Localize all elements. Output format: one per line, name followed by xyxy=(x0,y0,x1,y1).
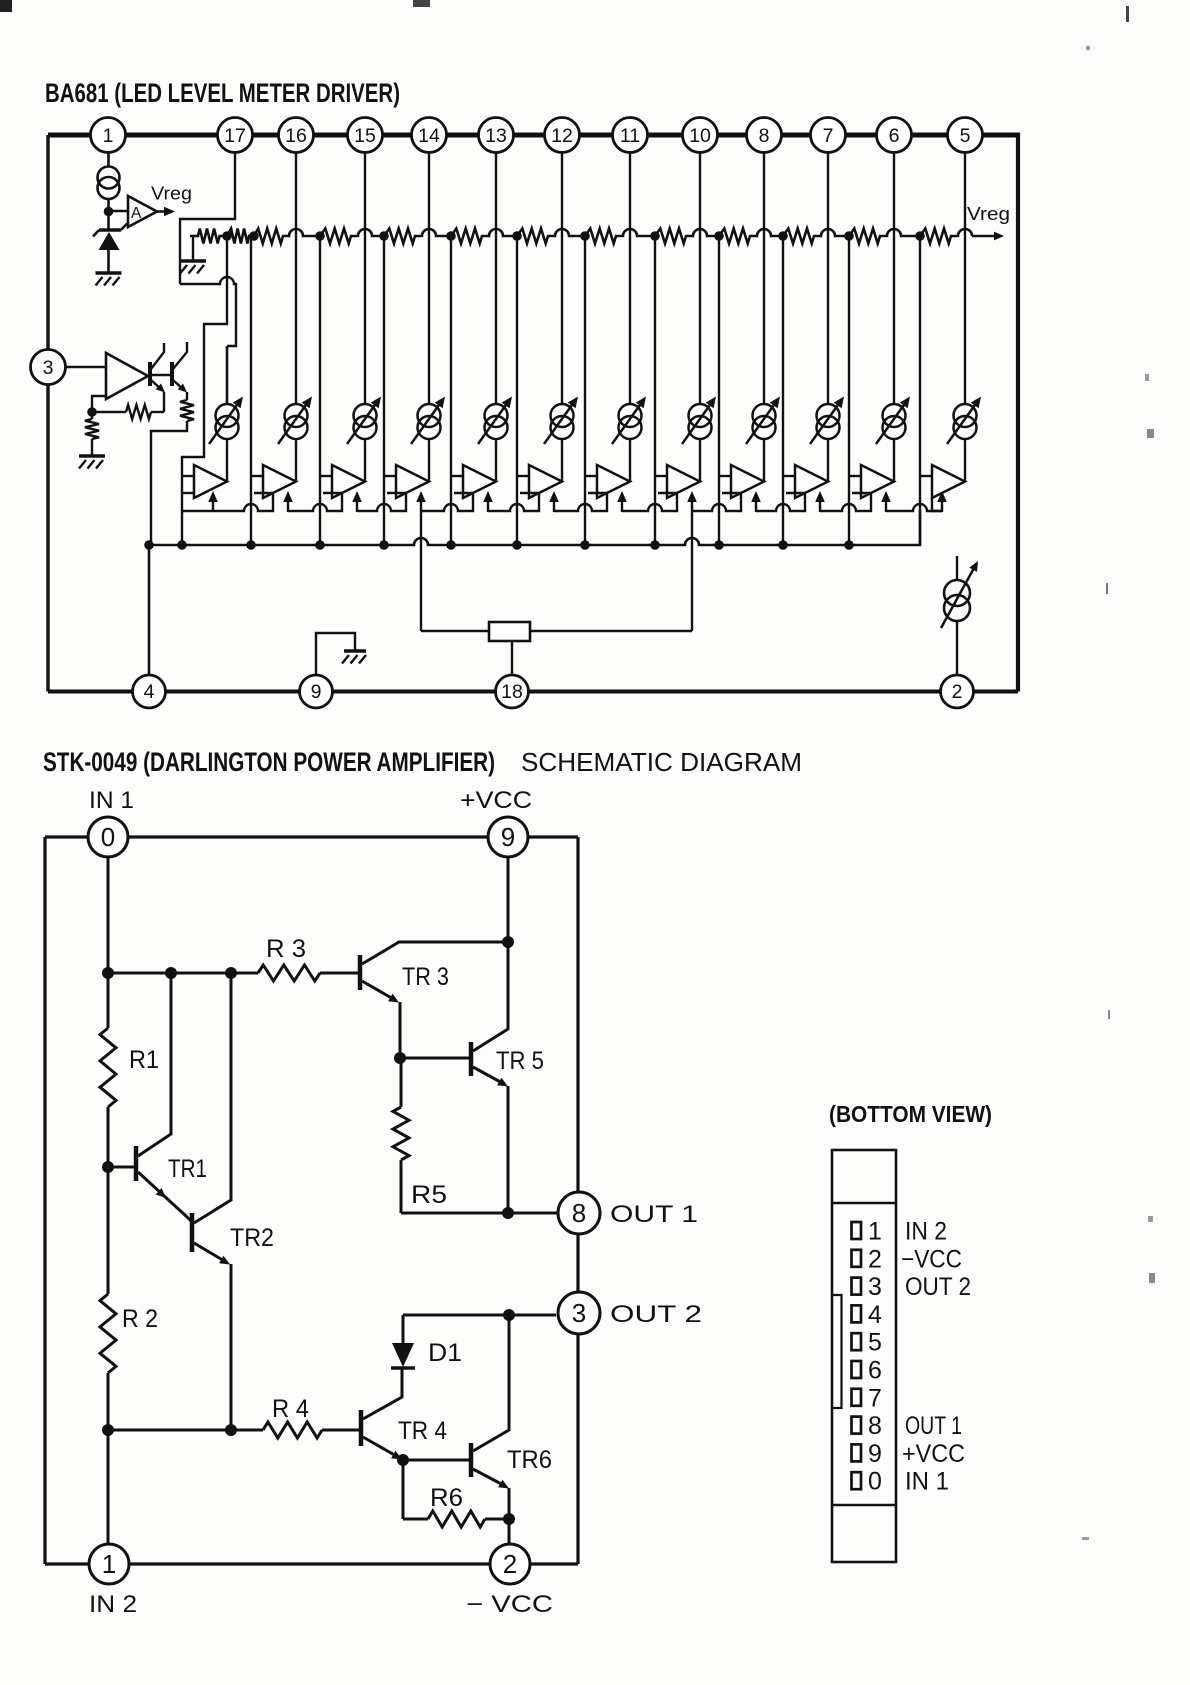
resistor R bias (vertical) xyxy=(91,412,93,419)
transistor TR2 xyxy=(190,1213,195,1252)
wire Q2 emitter to bus xyxy=(151,421,187,545)
pin 16 xyxy=(279,118,314,153)
op-amp comparator U2 xyxy=(263,465,296,498)
svg-text:A: A xyxy=(131,205,142,222)
wire reference input cell5 xyxy=(450,236,452,545)
wire STK box xyxy=(45,835,88,838)
LED D8 xyxy=(689,404,712,427)
pin 2 xyxy=(941,675,974,708)
LED D1 xyxy=(216,404,239,427)
svg-text:− VCC: − VCC xyxy=(466,1591,553,1618)
LED D5 xyxy=(485,404,508,427)
package tab notch xyxy=(832,1295,842,1408)
wire LED2 to comparator output xyxy=(295,439,297,482)
wire LED6 to comparator output xyxy=(561,439,563,482)
pin 7 xyxy=(811,118,846,153)
svg-text:+VCC: +VCC xyxy=(460,787,532,814)
node A junction xyxy=(104,207,114,217)
wire CS1 to node xyxy=(107,199,110,212)
wire pin column cell12 xyxy=(964,153,966,405)
pin 3 (bottom view) xyxy=(852,1278,862,1295)
pin 6 (bottom view) xyxy=(852,1361,862,1378)
wire reference input cell7 xyxy=(584,236,586,545)
wire pin column cell5 xyxy=(495,153,497,405)
wire pin column cell7 xyxy=(629,153,631,405)
svg-text:TR1: TR1 xyxy=(168,1155,207,1183)
scan artifact corner xyxy=(0,0,12,12)
wire reference input cell3 xyxy=(319,236,321,545)
wire LED1 to comparator output xyxy=(226,439,228,482)
svg-text:9: 9 xyxy=(868,1440,882,1468)
op-amp comparator U9 xyxy=(731,465,764,498)
pin 5 (bottom view) xyxy=(852,1333,862,1350)
current source CS2 (pin2) xyxy=(956,556,958,580)
wire pin1 to current source xyxy=(107,153,110,168)
svg-text:17: 17 xyxy=(224,125,246,147)
svg-text:2: 2 xyxy=(952,681,963,703)
transistor TR1 xyxy=(108,1166,134,1169)
ground (bias) xyxy=(79,456,105,469)
wire LED9 to comparator output xyxy=(763,439,765,482)
wire reference input cell9 xyxy=(718,236,720,545)
wire R-block left xyxy=(421,630,489,632)
svg-text:7: 7 xyxy=(823,125,834,147)
pin 9 xyxy=(300,675,333,708)
pin 2 (bottom view) xyxy=(852,1250,862,1267)
diode/amp input triangle xyxy=(106,353,148,399)
wire chain Vreg arrow xyxy=(972,235,996,238)
svg-text:OUT 2: OUT 2 xyxy=(905,1273,971,1301)
svg-text:D1: D1 xyxy=(428,1339,462,1367)
svg-text:9: 9 xyxy=(501,822,515,852)
svg-text:18: 18 xyxy=(501,681,523,703)
op-amp comparator U10 xyxy=(795,465,828,498)
wire LED12 to comparator output xyxy=(964,439,966,482)
svg-text:R 3: R 3 xyxy=(266,935,306,963)
resistor R emitter Q2 xyxy=(180,400,194,421)
wire pin3 to diode xyxy=(66,366,107,369)
wire reference input cell2 xyxy=(250,236,252,545)
wire strobe bus xyxy=(182,492,194,494)
wire LED7 to comparator output xyxy=(629,439,631,482)
pin 1 (bottom view) xyxy=(852,1222,862,1239)
svg-text:6: 6 xyxy=(889,125,900,147)
wire pin column cell4 xyxy=(428,153,430,405)
svg-text:TR 4: TR 4 xyxy=(398,1417,447,1445)
node chain taps xyxy=(222,231,232,241)
svg-text:3: 3 xyxy=(43,357,54,379)
svg-text:12: 12 xyxy=(551,125,573,147)
wire pin column cell10 xyxy=(827,153,829,405)
resistor R4 xyxy=(263,1422,322,1438)
wire input node row xyxy=(108,972,258,975)
pin 0 (bottom view) xyxy=(852,1472,862,1489)
LED D9 xyxy=(753,404,776,427)
LED D11 xyxy=(883,404,906,427)
resistor R3 xyxy=(258,965,320,981)
wire bottom node row xyxy=(108,1429,263,1432)
zener diode DZ xyxy=(107,212,110,230)
wire OUT1 row xyxy=(401,1212,558,1215)
pin 15 xyxy=(348,118,383,153)
LED D4 xyxy=(418,404,441,427)
pin 14 xyxy=(412,118,447,153)
wire right border xyxy=(1016,133,1020,692)
wire tap1 input spur xyxy=(182,475,194,477)
svg-text:TR6: TR6 xyxy=(507,1446,552,1474)
wire LED8 to comparator output xyxy=(699,439,701,482)
pin 12 xyxy=(545,118,580,153)
svg-text:2: 2 xyxy=(503,1549,517,1579)
svg-text:15: 15 xyxy=(354,125,376,147)
LED D3 xyxy=(354,404,377,427)
op-amp comparator U5 xyxy=(463,465,496,498)
pin 1 (IN2) xyxy=(89,1544,129,1584)
wire LED5 to comparator output xyxy=(495,439,497,482)
resistor block R14 xyxy=(489,622,530,641)
transistor TR3 xyxy=(358,955,363,990)
svg-text:4: 4 xyxy=(144,681,155,703)
wire OUT2 row xyxy=(403,1314,556,1317)
svg-text:16: 16 xyxy=(285,125,307,147)
wire pin column cell3 xyxy=(364,153,366,405)
svg-text:3: 3 xyxy=(868,1273,882,1301)
resistor chain (reference divider R1-R13) xyxy=(190,229,972,244)
wire left border xyxy=(46,135,49,350)
svg-text:IN 2: IN 2 xyxy=(89,1591,137,1618)
op-amp comparator U1 xyxy=(194,465,227,498)
op-amp comparator U12 xyxy=(932,465,965,498)
wire common bus xyxy=(147,511,920,545)
svg-text:Vreg: Vreg xyxy=(967,203,1010,224)
wire pin column cell8 xyxy=(699,153,701,405)
op-amp comparator U7 xyxy=(597,465,630,498)
svg-text:OUT 2: OUT 2 xyxy=(610,1301,702,1328)
resistor R2 xyxy=(107,1167,110,1294)
wire pin column cell2 xyxy=(295,153,297,405)
svg-text:8: 8 xyxy=(572,1198,586,1228)
package outline xyxy=(832,1150,896,1562)
wire reference input cell8 xyxy=(654,236,656,545)
wire bus to pin4 xyxy=(148,545,151,676)
wire Q1-Q2 base link xyxy=(152,374,170,376)
wire reference input cell11 xyxy=(848,236,850,545)
svg-text:5: 5 xyxy=(868,1329,882,1357)
pin 3 (OUT2) xyxy=(558,1292,600,1334)
pin 7 (bottom view) xyxy=(852,1389,862,1406)
svg-text:10: 10 xyxy=(689,125,711,147)
op-amp comparator U3 xyxy=(332,465,365,498)
svg-text:11: 11 xyxy=(620,125,640,147)
pin 13 xyxy=(479,118,514,153)
pin 9 (+VCC) xyxy=(488,817,528,857)
wire pin17 to LED1 (jogged) xyxy=(180,153,235,285)
wire bottom border xyxy=(48,690,133,694)
svg-text:9: 9 xyxy=(311,681,322,703)
pin 8 (bottom view) xyxy=(852,1417,862,1434)
LED D10 xyxy=(817,404,840,427)
svg-text:8: 8 xyxy=(759,125,770,147)
wire pin9 ground stub xyxy=(316,633,355,676)
wire R-block to pin18 xyxy=(511,641,513,676)
wire pin9 down xyxy=(507,856,510,1030)
wire reference input cell12 xyxy=(919,236,921,545)
op-amp comparator U4 xyxy=(396,465,429,498)
wire LED10 to comparator output xyxy=(827,439,829,482)
ground (zener) xyxy=(96,273,122,286)
svg-text:R 2: R 2 xyxy=(122,1305,158,1333)
op-amp comparator U11 xyxy=(861,465,894,498)
wire reference input cell4 xyxy=(383,236,385,545)
op-amp comparator U8 xyxy=(667,465,700,498)
wire strobe dropper to R-block (left) xyxy=(420,512,422,631)
svg-text:2: 2 xyxy=(868,1245,882,1273)
svg-text:0: 0 xyxy=(868,1468,882,1496)
resistor R6 xyxy=(402,1460,405,1519)
node bus junctions xyxy=(144,540,154,550)
svg-text:8: 8 xyxy=(868,1412,882,1440)
svg-text:Vreg: Vreg xyxy=(151,183,192,204)
pin 5 xyxy=(948,118,983,153)
pin 9 (bottom view) xyxy=(852,1444,862,1461)
wire R-block right xyxy=(530,630,692,632)
svg-text:TR2: TR2 xyxy=(230,1224,274,1252)
svg-text:13: 13 xyxy=(485,125,507,147)
wire amp output arrow xyxy=(157,210,166,213)
LED D2 xyxy=(285,404,308,427)
transistor Q2 xyxy=(170,362,174,386)
pin 4 (bottom view) xyxy=(852,1305,862,1322)
node STK junctions xyxy=(102,967,114,979)
pin 17 xyxy=(218,118,253,153)
svg-text:R5: R5 xyxy=(411,1181,447,1209)
wire reference input cell10 xyxy=(782,236,784,545)
wire LED11 to comparator output xyxy=(893,439,895,482)
strobe arrows into comparators xyxy=(212,500,214,512)
svg-text:IN 1: IN 1 xyxy=(905,1468,949,1496)
pin 6 xyxy=(877,118,912,153)
transistor TR6 xyxy=(403,1459,469,1462)
svg-text:OUT 1: OUT 1 xyxy=(610,1201,698,1228)
current source CS1 xyxy=(98,167,120,189)
wire pin column cell6 xyxy=(561,153,563,405)
pin 2 (-VCC) xyxy=(490,1544,530,1584)
wire chain ground stub xyxy=(192,236,194,260)
svg-text:SCHEMATIC DIAGRAM: SCHEMATIC DIAGRAM xyxy=(521,747,802,777)
svg-text:BA681 (LED LEVEL METER DRIVER): BA681 (LED LEVEL METER DRIVER) xyxy=(45,78,400,108)
op-amp A (Vreg regulator) xyxy=(128,196,157,227)
svg-text:STK-0049 (DARLINGTON POWER AMP: STK-0049 (DARLINGTON POWER AMPLIFIER) xyxy=(43,747,495,777)
svg-text:7: 7 xyxy=(868,1384,882,1412)
svg-text:R 4: R 4 xyxy=(272,1395,309,1423)
LED D6 xyxy=(551,404,574,427)
wire pin0 down xyxy=(107,857,110,973)
wire pin1 up xyxy=(107,1430,110,1544)
wire LED3 to comparator output xyxy=(364,439,366,482)
svg-text:4: 4 xyxy=(868,1301,882,1329)
svg-text:14: 14 xyxy=(418,125,440,147)
wire reference input cell6 xyxy=(516,236,518,545)
wire strobe dropper to R-block (right) xyxy=(691,512,693,631)
wire top border xyxy=(48,133,91,138)
pin 8 (OUT1) xyxy=(558,1192,600,1234)
wire LED4 to comparator output xyxy=(428,439,430,482)
pin 18 xyxy=(496,675,529,708)
resistor R1 xyxy=(107,973,110,1028)
pin 4 xyxy=(133,675,166,708)
transistor Q1 xyxy=(148,362,152,386)
pin 0 (IN1) xyxy=(88,817,128,857)
pin 1 xyxy=(91,118,126,153)
ground (pin9) xyxy=(342,651,366,664)
svg-text:1: 1 xyxy=(103,125,114,147)
svg-text:+VCC: +VCC xyxy=(902,1440,965,1468)
svg-text:(BOTTOM VIEW): (BOTTOM VIEW) xyxy=(829,1101,992,1127)
wire pin column cell1 xyxy=(226,346,229,405)
transistor TR5 xyxy=(473,1029,508,1051)
svg-text:OUT 1: OUT 1 xyxy=(905,1412,962,1440)
svg-text:1: 1 xyxy=(868,1218,882,1246)
diode D1 xyxy=(391,1366,415,1369)
svg-text:6: 6 xyxy=(868,1357,882,1385)
op-amp comparator U6 xyxy=(529,465,562,498)
wire node to amp xyxy=(109,210,129,213)
wire pin column cell9 xyxy=(763,153,765,405)
wire triangle to node xyxy=(92,396,106,412)
svg-text:5: 5 xyxy=(960,125,971,147)
svg-text:R6: R6 xyxy=(430,1484,463,1512)
svg-text:−VCC: −VCC xyxy=(901,1245,962,1273)
svg-text:R1: R1 xyxy=(129,1046,159,1074)
resistor R5 xyxy=(400,1058,403,1107)
svg-text:TR 5: TR 5 xyxy=(496,1047,544,1075)
svg-text:1: 1 xyxy=(102,1549,116,1579)
pin 8 xyxy=(747,118,782,153)
resistor R base (horizontal) xyxy=(92,411,126,413)
LED D12 xyxy=(954,404,977,427)
svg-text:TR 3: TR 3 xyxy=(402,963,449,991)
pin 3 xyxy=(31,350,66,385)
svg-text:0: 0 xyxy=(101,822,115,852)
node bias junction xyxy=(87,407,97,417)
LED D7 xyxy=(619,404,642,427)
ground (chain) xyxy=(180,261,206,274)
svg-text:3: 3 xyxy=(572,1298,586,1328)
svg-text:IN 1: IN 1 xyxy=(89,787,134,814)
wire tap1 to comparator1 input xyxy=(182,236,227,545)
svg-text:IN 2: IN 2 xyxy=(905,1218,947,1246)
pin 11 xyxy=(613,118,648,153)
transistor TR4 xyxy=(359,1410,364,1446)
wire pin column cell11 xyxy=(893,153,895,405)
pin 10 xyxy=(683,118,718,153)
